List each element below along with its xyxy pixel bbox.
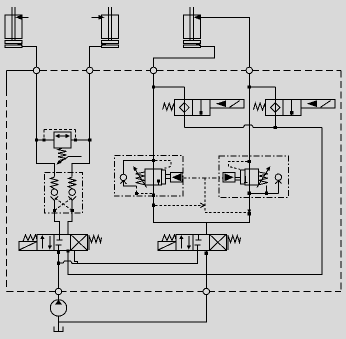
- wire CYL3 bottom to port 3: [154, 46, 215, 67]
- wire DCV2 T port to node: [205, 250, 207, 288]
- junction dots SQ1 on main line: [152, 159, 155, 162]
- junction dot SV2 pilot: [248, 85, 251, 88]
- pilot check-valve pair PO1 (dash-dot box): [45, 173, 83, 214]
- wire line A (pump to DCV2 P) with crossover hop: [59, 250, 198, 263]
- junction dot SV1 pilot: [152, 85, 155, 88]
- directional valve DCV2 (bottom-centre 4/3): [158, 234, 241, 250]
- wire PO1 outputs to DCV1: [54, 211, 59, 235]
- relief valve RV1: [37, 130, 90, 165]
- wire drain gallery (SV bottoms) with hop over main line: [184, 125, 322, 127]
- directional valve DCV1 (bottom-left 4/3): [19, 234, 102, 250]
- wire pilot feed to SV1: [154, 86, 185, 88]
- cylinder CYL3 (top-right): [183, 7, 200, 47]
- wire tank return line: [59, 295, 207, 323]
- node pump port circle: [55, 288, 61, 294]
- junction dots SQ2 on main line: [248, 160, 251, 163]
- wire DCV2 top port from rail: [205, 222, 207, 234]
- enclosure boundary (dashed manifold outline): [7, 70, 342, 291]
- junction dot pilot on main line B1: [152, 204, 155, 207]
- node port 1 circle: [33, 67, 39, 73]
- pilot line network (dashed): [155, 178, 251, 214]
- wire DCV1 T port down to return gallery: [68, 127, 322, 274]
- wire CYL2 to port 2: [90, 46, 102, 67]
- pump P1: [50, 300, 66, 316]
- wire main line B1 (port3 down to rail): [154, 74, 250, 223]
- junction dot pilot on main line B2: [248, 212, 251, 215]
- solenoid valve SV2 (upper right, right one): [254, 87, 335, 128]
- sequence valve block SQ1 (centre-left dash-dot box): [114, 156, 183, 196]
- sequence valve block SQ2 (centre-right dash-dot box): [219, 156, 288, 198]
- solenoid valve SV1 (upper right, left one): [163, 87, 244, 128]
- wire pump pressure riser P: [58, 250, 60, 288]
- wire node to pump: [58, 295, 60, 300]
- node return port circle: [203, 288, 209, 294]
- junction dot on riser / line A: [57, 262, 60, 265]
- cylinder CYL2 (top-middle): [91, 7, 118, 47]
- wire main line A2 (port2 down): [72, 74, 90, 177]
- node port 2 circle: [87, 67, 93, 73]
- wire CYL3 rod-side to port 4: [200, 17, 250, 67]
- wire CYL1 to port 1: [22, 46, 37, 67]
- junction dot below DCV1: [57, 251, 60, 254]
- junction dot DCV1 T-port: [67, 250, 70, 253]
- node port 4 circle: [246, 67, 252, 73]
- junction dot SV2 bottom: [274, 126, 277, 129]
- junction dots on relief line: [35, 138, 38, 141]
- tank T1: [54, 326, 63, 331]
- wire main line A1 (port1 down): [37, 74, 55, 177]
- junction dot below DCV2: [205, 252, 208, 255]
- node port 3 circle: [150, 67, 156, 73]
- wire DCV1 extra port jog into line A: [75, 250, 78, 263]
- wire pilot feed to SV2: [249, 86, 275, 88]
- cylinder CYL1 (top-left): [5, 7, 28, 47]
- wire pump suction: [58, 316, 60, 331]
